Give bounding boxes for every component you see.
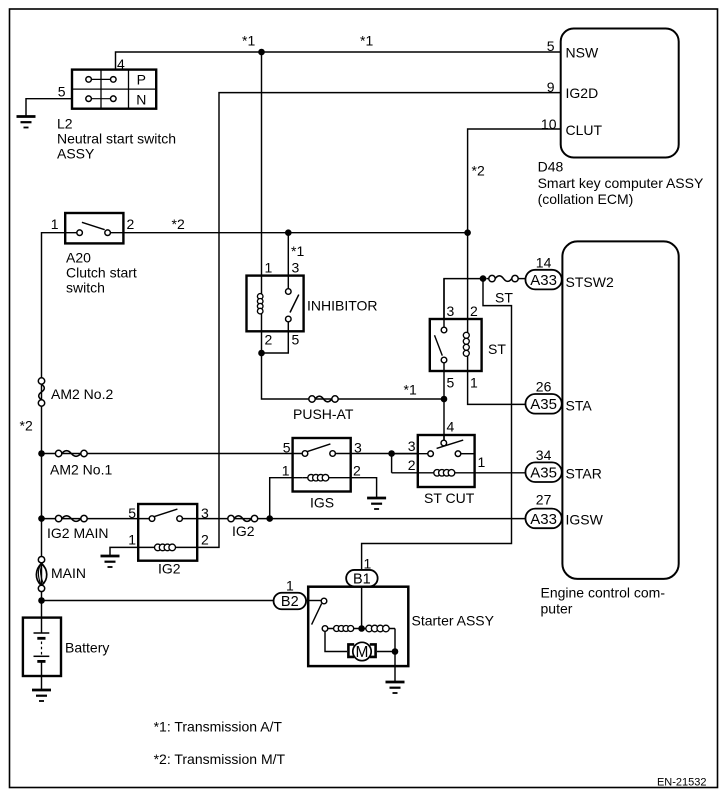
svg-text:4: 4 bbox=[117, 56, 125, 72]
svg-text:2: 2 bbox=[127, 216, 135, 232]
svg-text:A33: A33 bbox=[530, 511, 557, 528]
svg-text:IGSW: IGSW bbox=[566, 512, 604, 528]
svg-text:5: 5 bbox=[547, 38, 555, 54]
svg-text:10: 10 bbox=[541, 116, 557, 132]
svg-text:Starter ASSY: Starter ASSY bbox=[412, 613, 495, 629]
svg-text:*1: *1 bbox=[404, 381, 417, 397]
svg-text:*1: *1 bbox=[360, 32, 373, 48]
svg-text:1: 1 bbox=[265, 260, 273, 276]
svg-text:P: P bbox=[137, 72, 146, 88]
svg-text:14: 14 bbox=[536, 255, 552, 271]
svg-text:*1: *1 bbox=[291, 243, 304, 259]
svg-text:26: 26 bbox=[536, 379, 552, 395]
svg-text:A20: A20 bbox=[66, 250, 91, 266]
svg-text:N: N bbox=[136, 91, 146, 107]
svg-text:2: 2 bbox=[408, 457, 416, 473]
svg-text:A35: A35 bbox=[530, 396, 557, 413]
svg-text:*2: *2 bbox=[472, 163, 485, 179]
svg-text:A33: A33 bbox=[530, 272, 557, 289]
svg-text:D48: D48 bbox=[538, 159, 564, 175]
svg-text:CLUT: CLUT bbox=[566, 122, 603, 138]
svg-text:B2: B2 bbox=[281, 594, 299, 610]
svg-text:Smart key computer ASSY: Smart key computer ASSY bbox=[538, 175, 704, 191]
svg-text:(collation ECM): (collation ECM) bbox=[538, 191, 634, 207]
svg-text:2: 2 bbox=[201, 532, 209, 548]
svg-text:AM2 No.2: AM2 No.2 bbox=[51, 386, 113, 402]
svg-text:1: 1 bbox=[478, 454, 486, 470]
svg-text:ST CUT: ST CUT bbox=[424, 490, 475, 506]
svg-text:*1: *1 bbox=[242, 32, 255, 48]
svg-text:1: 1 bbox=[470, 375, 478, 391]
svg-text:4: 4 bbox=[447, 419, 455, 435]
svg-text:5: 5 bbox=[447, 375, 455, 391]
svg-text:3: 3 bbox=[201, 505, 209, 521]
svg-text:1: 1 bbox=[286, 578, 294, 594]
svg-text:5: 5 bbox=[128, 505, 136, 521]
svg-text:Engine control com-: Engine control com- bbox=[541, 585, 666, 601]
svg-text:1: 1 bbox=[128, 532, 136, 548]
svg-text:IG2: IG2 bbox=[158, 561, 181, 577]
svg-text:2: 2 bbox=[265, 332, 273, 348]
svg-text:5: 5 bbox=[292, 332, 300, 348]
svg-text:L2: L2 bbox=[57, 116, 73, 132]
svg-text:1: 1 bbox=[51, 216, 59, 232]
svg-text:STSW2: STSW2 bbox=[566, 274, 614, 290]
svg-text:5: 5 bbox=[58, 84, 66, 100]
svg-text:IG2D: IG2D bbox=[566, 85, 599, 101]
svg-text:Neutral start switch: Neutral start switch bbox=[57, 131, 176, 147]
svg-text:Battery: Battery bbox=[65, 640, 109, 656]
svg-text:NSW: NSW bbox=[566, 45, 599, 61]
svg-text:STA: STA bbox=[566, 398, 593, 414]
svg-text:ST: ST bbox=[495, 290, 513, 306]
svg-text:B1: B1 bbox=[353, 571, 371, 587]
svg-text:5: 5 bbox=[283, 440, 291, 456]
svg-text:STAR: STAR bbox=[566, 466, 602, 482]
svg-text:switch: switch bbox=[66, 280, 105, 296]
svg-text:3: 3 bbox=[354, 440, 362, 456]
svg-text:9: 9 bbox=[547, 79, 555, 95]
svg-text:1: 1 bbox=[282, 463, 290, 479]
svg-text:PUSH-AT: PUSH-AT bbox=[293, 406, 354, 422]
svg-text:ST: ST bbox=[488, 341, 506, 357]
svg-text:34: 34 bbox=[536, 447, 552, 463]
svg-text:IG2: IG2 bbox=[232, 523, 255, 539]
svg-text:3: 3 bbox=[447, 303, 455, 319]
svg-text:Clutch start: Clutch start bbox=[66, 265, 137, 281]
svg-text:INHIBITOR: INHIBITOR bbox=[307, 298, 378, 314]
svg-text:3: 3 bbox=[292, 260, 300, 276]
svg-text:27: 27 bbox=[536, 492, 552, 508]
svg-text:MAIN: MAIN bbox=[51, 565, 86, 581]
svg-text:*2: *2 bbox=[172, 216, 185, 232]
svg-text:*1: Transmission A/T: *1: Transmission A/T bbox=[154, 719, 283, 735]
svg-text:AM2 No.1: AM2 No.1 bbox=[50, 462, 112, 478]
svg-text:2: 2 bbox=[470, 303, 478, 319]
svg-text:1: 1 bbox=[364, 556, 372, 572]
svg-text:A35: A35 bbox=[530, 465, 557, 482]
svg-text:puter: puter bbox=[541, 601, 573, 617]
svg-text:EN-21532: EN-21532 bbox=[657, 777, 707, 789]
svg-text:3: 3 bbox=[408, 438, 416, 454]
svg-text:IGS: IGS bbox=[310, 495, 334, 511]
svg-text:IG2 MAIN: IG2 MAIN bbox=[47, 525, 108, 541]
svg-text:*2: *2 bbox=[20, 418, 33, 434]
svg-text:ASSY: ASSY bbox=[57, 146, 95, 162]
svg-text:*2: Transmission M/T: *2: Transmission M/T bbox=[154, 751, 286, 767]
svg-text:2: 2 bbox=[353, 463, 361, 479]
svg-text:M: M bbox=[356, 644, 369, 661]
